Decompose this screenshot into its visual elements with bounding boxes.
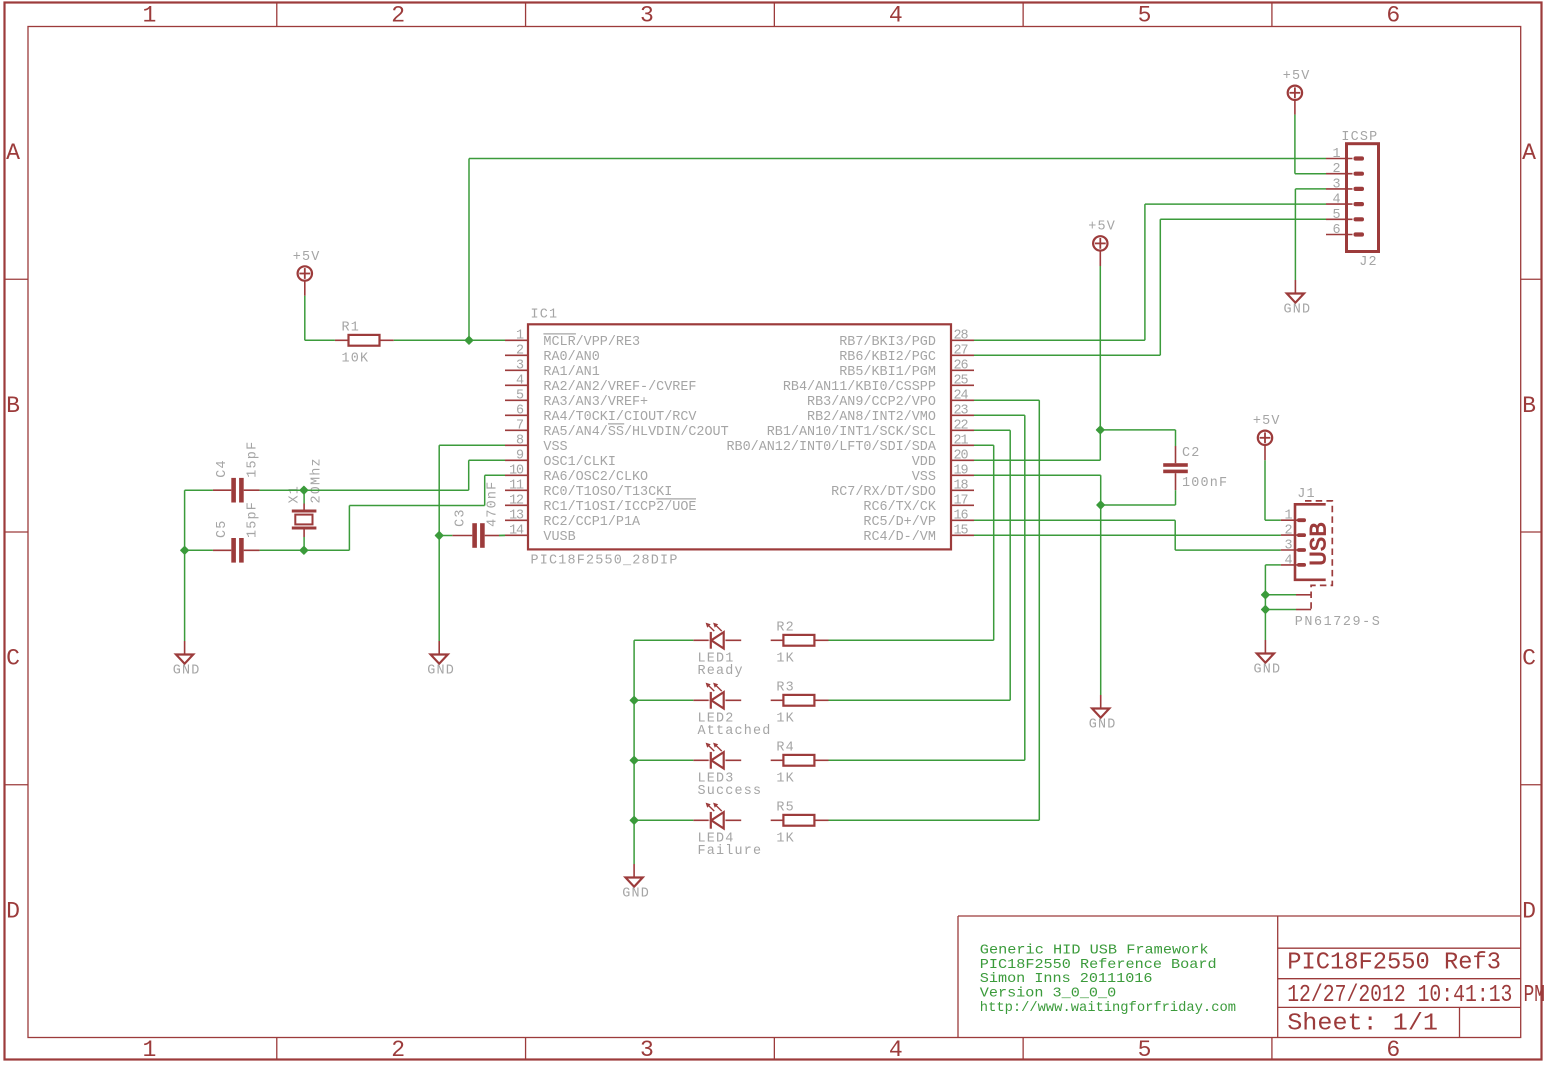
svg-text:17: 17	[954, 493, 968, 508]
svg-text:PIC18F2550 Reference Board: PIC18F2550 Reference Board	[980, 958, 1217, 973]
svg-text:16: 16	[954, 508, 969, 523]
svg-text:2: 2	[1333, 162, 1341, 177]
svg-text:RC1/T1OSI/ICCP2/UOE: RC1/T1OSI/ICCP2/UOE	[543, 500, 696, 515]
svg-text:GND: GND	[1089, 718, 1117, 733]
svg-text:+5V: +5V	[1088, 220, 1116, 235]
svg-text:15pF: 15pF	[245, 501, 260, 538]
svg-text:1K: 1K	[776, 712, 795, 727]
svg-text:RC6/TX/CK: RC6/TX/CK	[863, 500, 936, 515]
svg-text:1K: 1K	[776, 652, 795, 667]
svg-text:RB0/AN12/INT0/LFT0/SDI/SDA: RB0/AN12/INT0/LFT0/SDI/SDA	[726, 440, 936, 455]
svg-text:Ready: Ready	[698, 664, 744, 679]
svg-text:22: 22	[954, 418, 969, 433]
svg-text:RC2/CCP1/P1A: RC2/CCP1/P1A	[543, 515, 641, 530]
svg-text:B: B	[6, 393, 20, 419]
svg-text:J2: J2	[1359, 255, 1378, 270]
svg-text:21: 21	[954, 433, 969, 448]
svg-text:6: 6	[1333, 223, 1341, 238]
svg-text:VDD: VDD	[912, 455, 936, 470]
svg-text:2: 2	[391, 3, 405, 29]
svg-text:+5V: +5V	[1253, 414, 1281, 429]
svg-text:1: 1	[142, 1037, 156, 1063]
svg-text:R5: R5	[776, 801, 795, 816]
svg-text:R4: R4	[776, 741, 795, 756]
svg-text:J1: J1	[1297, 487, 1316, 502]
svg-text:GND: GND	[173, 664, 201, 679]
svg-text:5: 5	[1138, 3, 1152, 29]
svg-text:27: 27	[954, 343, 968, 358]
svg-text:3: 3	[1333, 177, 1341, 192]
svg-text:Failure: Failure	[698, 844, 763, 859]
svg-text:PN61729-S: PN61729-S	[1295, 615, 1382, 630]
svg-text:GND: GND	[622, 887, 650, 902]
svg-text:RA4/T0CKI/CIOUT/RCV: RA4/T0CKI/CIOUT/RCV	[543, 410, 696, 425]
svg-text:RB2/AN8/INT2/VMO: RB2/AN8/INT2/VMO	[807, 410, 936, 425]
svg-text:470nF: 470nF	[485, 481, 500, 527]
svg-text:Simon Inns 20111016: Simon Inns 20111016	[980, 972, 1153, 987]
svg-text:R3: R3	[776, 681, 795, 696]
svg-text:12: 12	[509, 493, 524, 508]
svg-text:25: 25	[954, 373, 969, 388]
svg-text:Sheet: 1/1: Sheet: 1/1	[1287, 1010, 1438, 1037]
svg-text:RA2/AN2/VREF-/CVREF: RA2/AN2/VREF-/CVREF	[543, 380, 696, 395]
svg-text:PM: PM	[1524, 982, 1545, 1009]
svg-text:RB1/AN10/INT1/SCK/SCL: RB1/AN10/INT1/SCK/SCL	[767, 425, 936, 440]
svg-text:8: 8	[516, 433, 524, 448]
svg-text:A: A	[1522, 140, 1536, 166]
svg-text:11: 11	[509, 478, 524, 493]
svg-text:14: 14	[509, 523, 524, 538]
svg-text:5: 5	[1333, 208, 1341, 223]
svg-text:100nF: 100nF	[1182, 476, 1228, 491]
svg-text:6: 6	[516, 403, 524, 418]
svg-text:OSC1/CLKI: OSC1/CLKI	[543, 455, 616, 470]
svg-text:RA5/AN4/SS/HLVDIN/C2OUT: RA5/AN4/SS/HLVDIN/C2OUT	[543, 425, 728, 440]
svg-text:4: 4	[889, 1037, 903, 1063]
svg-text:4: 4	[1285, 553, 1293, 568]
svg-text:4: 4	[889, 3, 903, 29]
svg-text:C5: C5	[215, 519, 230, 538]
svg-text:USB: USB	[1306, 522, 1332, 566]
svg-text:9: 9	[516, 448, 524, 463]
svg-text:D: D	[6, 898, 20, 924]
svg-text:1K: 1K	[776, 772, 795, 787]
svg-text:Generic HID USB Framework: Generic HID USB Framework	[980, 944, 1209, 959]
svg-text:23: 23	[954, 403, 969, 418]
svg-text:PIC18F2550 Ref3: PIC18F2550 Ref3	[1287, 949, 1501, 976]
svg-text:24: 24	[954, 388, 969, 403]
svg-text:3: 3	[640, 1037, 654, 1063]
svg-text:RB4/AN11/KBI0/CSSPP: RB4/AN11/KBI0/CSSPP	[783, 380, 936, 395]
svg-text:RA0/AN0: RA0/AN0	[543, 350, 599, 365]
svg-text:3: 3	[1285, 539, 1293, 554]
svg-text:RB7/BKI3/PGD: RB7/BKI3/PGD	[839, 335, 936, 350]
svg-text:6: 6	[1386, 1037, 1400, 1063]
svg-text:RC5/D+/VP: RC5/D+/VP	[863, 515, 936, 530]
svg-text:RC4/D-/VM: RC4/D-/VM	[863, 530, 936, 545]
svg-text:RA3/AN3/VREF+: RA3/AN3/VREF+	[543, 395, 648, 410]
svg-text:3: 3	[516, 358, 524, 373]
svg-text:MCLR/VPP/RE3: MCLR/VPP/RE3	[543, 335, 640, 350]
svg-text:15pF: 15pF	[245, 441, 260, 478]
svg-text:RA6/OSC2/CLKO: RA6/OSC2/CLKO	[543, 470, 648, 485]
svg-text:2: 2	[1285, 524, 1293, 539]
svg-text:3: 3	[640, 3, 654, 29]
svg-text:C: C	[1522, 646, 1536, 672]
svg-text:RB6/KBI2/PGC: RB6/KBI2/PGC	[839, 350, 936, 365]
svg-text:1: 1	[142, 3, 156, 29]
svg-text:RA1/AN1: RA1/AN1	[543, 365, 599, 380]
svg-text:Success: Success	[698, 784, 763, 799]
svg-text:13: 13	[509, 508, 524, 523]
svg-text:C3: C3	[453, 508, 468, 527]
svg-text:6: 6	[1386, 3, 1400, 29]
svg-text:http://www.waitingforfriday.co: http://www.waitingforfriday.com	[980, 1001, 1236, 1016]
svg-text:+5V: +5V	[1283, 69, 1311, 84]
svg-text:X1: X1	[288, 485, 303, 504]
svg-text:12/27/2012 10:41:13: 12/27/2012 10:41:13	[1287, 982, 1512, 1009]
svg-text:5: 5	[516, 388, 524, 403]
svg-text:VSS: VSS	[543, 440, 567, 455]
svg-text:19: 19	[954, 463, 969, 478]
svg-text:D: D	[1522, 898, 1536, 924]
svg-text:2: 2	[516, 343, 524, 358]
svg-text:C2: C2	[1182, 446, 1201, 461]
svg-text:Version 3_0_0_0: Version 3_0_0_0	[980, 987, 1116, 1002]
svg-text:4: 4	[1333, 193, 1341, 208]
svg-text:5: 5	[1138, 1037, 1152, 1063]
svg-text:VSS: VSS	[912, 470, 936, 485]
svg-text:20: 20	[954, 448, 969, 463]
svg-text:1K: 1K	[776, 832, 795, 847]
svg-text:10K: 10K	[342, 352, 370, 367]
svg-text:PIC18F2550_28DIP: PIC18F2550_28DIP	[531, 553, 679, 568]
svg-text:GND: GND	[1254, 663, 1282, 678]
svg-text:RC0/T1OSO/T13CKI: RC0/T1OSO/T13CKI	[543, 485, 672, 500]
svg-text:15: 15	[954, 523, 969, 538]
svg-text:+5V: +5V	[293, 250, 321, 265]
svg-text:10: 10	[509, 463, 524, 478]
svg-text:26: 26	[954, 358, 969, 373]
svg-text:IC1: IC1	[531, 307, 559, 322]
svg-text:1: 1	[516, 328, 524, 343]
svg-text:1: 1	[1333, 147, 1341, 162]
svg-text:28: 28	[954, 328, 969, 343]
svg-text:Attached: Attached	[698, 724, 772, 739]
svg-text:7: 7	[516, 418, 523, 433]
svg-text:1: 1	[1285, 509, 1293, 524]
svg-text:RC7/RX/DT/SDO: RC7/RX/DT/SDO	[831, 485, 936, 500]
svg-text:B: B	[1522, 393, 1536, 419]
svg-text:RB3/AN9/CCP2/VPO: RB3/AN9/CCP2/VPO	[807, 395, 936, 410]
svg-text:20Mhz: 20Mhz	[309, 457, 324, 503]
svg-text:VUSB: VUSB	[543, 530, 575, 545]
svg-text:RB5/KBI1/PGM: RB5/KBI1/PGM	[839, 365, 936, 380]
svg-text:GND: GND	[427, 664, 455, 679]
svg-text:C: C	[6, 646, 20, 672]
svg-text:R1: R1	[342, 321, 361, 336]
svg-text:2: 2	[391, 1037, 405, 1063]
svg-text:18: 18	[954, 478, 969, 493]
svg-text:ICSP: ICSP	[1341, 130, 1378, 145]
svg-text:R2: R2	[776, 621, 795, 636]
svg-text:GND: GND	[1284, 303, 1312, 318]
svg-text:A: A	[6, 140, 20, 166]
svg-text:C4: C4	[215, 459, 230, 478]
svg-text:4: 4	[516, 373, 524, 388]
